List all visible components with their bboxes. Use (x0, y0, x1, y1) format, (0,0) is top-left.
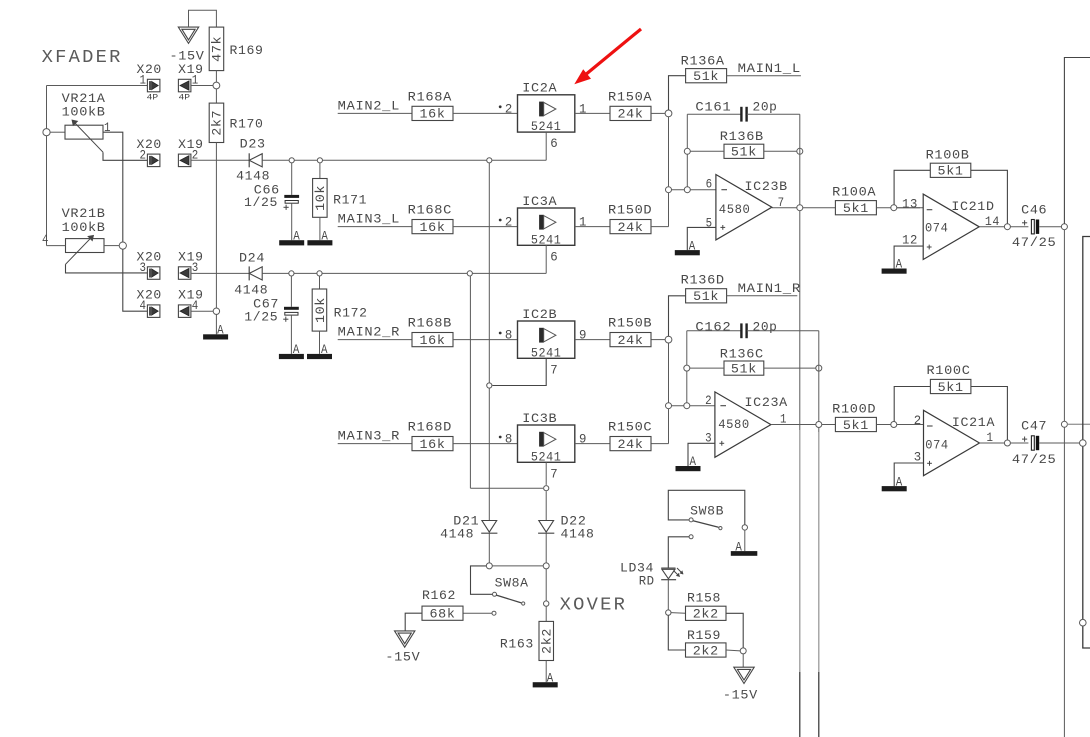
wire R150A to junction (651, 112, 665, 114)
svg-text:R136A: R136A (681, 54, 725, 68)
node junction C66 (289, 158, 294, 163)
svg-text:MAIN3_R: MAIN3_R (338, 430, 400, 444)
svg-text:MAIN2_R: MAIN2_R (338, 326, 400, 340)
svg-text:A: A (293, 343, 300, 357)
wire D22 node to R163 (545, 569, 547, 601)
wire (453, 443, 518, 445)
svg-text:12: 12 (902, 234, 918, 248)
wire MAIN1_L (727, 75, 801, 77)
svg-text:5k1: 5k1 (938, 381, 964, 395)
svg-text:074: 074 (925, 438, 948, 452)
svg-text:A: A (896, 475, 903, 489)
svg-text:VR21B: VR21B (62, 207, 106, 221)
wire net MAIN3_L (338, 226, 412, 228)
wire bus vertical A upper (799, 211, 801, 430)
power -15V arrow R162 (395, 631, 415, 647)
wire (290, 315, 292, 354)
wire (575, 443, 610, 445)
wire riser R136C right (818, 331, 820, 422)
wire (104, 245, 119, 247)
wire IC2B pin7 (493, 358, 547, 385)
op-amp IC23B 4580 (716, 175, 772, 240)
svg-text:MAIN1_R: MAIN1_R (738, 282, 801, 296)
wire R170 top (215, 89, 217, 103)
svg-text:51k: 51k (693, 70, 719, 84)
svg-text:2: 2 (140, 148, 147, 162)
wiper arrow VR21B (66, 237, 93, 264)
annotation red arrow pointing at IC2A (585, 29, 642, 76)
wire riser R136B right (799, 114, 801, 204)
svg-text:2k2: 2k2 (693, 644, 719, 658)
svg-text:R168D: R168D (408, 421, 452, 435)
svg-text:4: 4 (140, 299, 147, 313)
node junction feedback R (684, 403, 690, 409)
wire (319, 331, 321, 354)
svg-text:9: 9 (579, 329, 587, 343)
wire plus input to ground IC21D (894, 246, 923, 268)
node junction IC23A input node (665, 336, 672, 343)
svg-text:5k1: 5k1 (938, 165, 964, 179)
svg-text:R136C: R136C (720, 347, 764, 361)
node junction minus R (666, 403, 672, 409)
resistor R169 (209, 27, 224, 71)
wire gate R vertical (469, 276, 471, 488)
svg-text:-15V: -15V (385, 651, 420, 665)
wire bus vertical A lower dark (799, 672, 801, 737)
resistor R163 2k2 (539, 621, 554, 660)
ground A C67 (279, 354, 304, 359)
svg-text:47/25: 47/25 (1012, 453, 1057, 467)
node junction IC23B input node (665, 110, 672, 117)
wire feedback right IC21D (971, 170, 1008, 223)
wire IC3B pin7 (545, 462, 547, 485)
node junction output IC21A (1004, 440, 1010, 446)
wire down to minus node R (668, 343, 670, 403)
svg-text:R100D: R100D (832, 403, 876, 417)
wire X19-2 to D23 (191, 159, 249, 161)
wire to SW8A throw (471, 566, 493, 594)
wire (50, 131, 65, 133)
node junction output R (816, 422, 822, 428)
svg-text:R150B: R150B (608, 317, 652, 331)
svg-text:47k: 47k (211, 36, 225, 62)
svg-text:D23: D23 (240, 138, 266, 152)
ground A SW8B (731, 551, 758, 556)
wire R163 to ground (545, 661, 547, 683)
svg-text:IC3A: IC3A (522, 195, 557, 209)
ground A IC21A (882, 486, 907, 491)
svg-text:C46: C46 (1021, 204, 1047, 218)
node junction feedback L (684, 187, 690, 193)
wire (876, 207, 920, 209)
svg-text:16k: 16k (420, 438, 446, 452)
svg-text:7: 7 (550, 363, 558, 377)
node junction R158 R159 right (740, 648, 746, 654)
wire D24 to IC3A pin6 (262, 272, 546, 274)
svg-text:IC3B: IC3B (522, 412, 557, 426)
svg-text:68k: 68k (430, 608, 456, 622)
svg-text:A: A (293, 229, 300, 243)
svg-text:10k: 10k (314, 185, 328, 211)
buffer op-amp IC3B 5241 (518, 425, 575, 462)
node junction IC3B pin7 gate R (544, 486, 549, 491)
wire feedback riser L (686, 114, 688, 186)
wire junction down to R159 (668, 615, 685, 650)
svg-text:R100C: R100C (927, 364, 971, 378)
svg-text:IC2B: IC2B (522, 308, 557, 322)
op-amp IC21D 074 (923, 194, 979, 259)
wire output IC23B (772, 207, 836, 209)
svg-text:C161: C161 (695, 101, 731, 115)
wire VR21A terminal1 down (103, 132, 123, 242)
wire plus input to ground (687, 227, 716, 250)
wire top to X20-1 (47, 85, 148, 87)
wire to -15V (742, 654, 744, 667)
svg-text:6: 6 (706, 178, 713, 192)
node junction R136B left (684, 148, 690, 154)
svg-text:RD: RD (639, 574, 655, 588)
wire bus vertical B lower dark (818, 672, 820, 737)
wire R170 bottom to ground (215, 143, 217, 308)
wire minus node to opamp (672, 189, 716, 191)
wire C46 to bus (1039, 226, 1061, 228)
contact SW8A lower throw (492, 611, 496, 615)
node junction X19-1 bias (213, 82, 220, 89)
wire R150B to junction (651, 339, 665, 341)
svg-text:4580: 4580 (719, 203, 751, 217)
svg-text:51k: 51k (731, 146, 757, 160)
wire bus vertical B upper (818, 428, 820, 433)
svg-text:8: 8 (505, 329, 513, 343)
ground A R172 (307, 354, 332, 359)
wire minus node to opamp R (672, 405, 715, 407)
svg-text:1: 1 (140, 74, 147, 88)
svg-text:47/25: 47/25 (1012, 236, 1057, 250)
wire output IC21D (979, 226, 1028, 228)
svg-text:3: 3 (140, 261, 147, 275)
svg-text:R150A: R150A (608, 90, 652, 104)
buffer op-amp IC3A 5241 (518, 208, 575, 245)
svg-text:R168C: R168C (408, 204, 452, 218)
svg-text:51k: 51k (693, 290, 719, 304)
node junction D21 bottom (486, 563, 492, 569)
node junction C67 (289, 271, 294, 276)
wire plus input to ground R (688, 443, 715, 466)
node junction SW8A pole (544, 601, 549, 606)
node VR21A left terminal (43, 129, 50, 136)
node junction bus stub (1061, 421, 1067, 427)
wire R162 to throw (463, 612, 492, 614)
potentiometer VR21A 100kB (65, 125, 103, 139)
svg-text:C47: C47 (1021, 420, 1047, 434)
buffer op-amp IC2A 5241 (518, 95, 575, 132)
capacitor C67 1/25 (290, 276, 292, 307)
svg-text:16k: 16k (420, 334, 446, 348)
node VR21B right terminal (119, 242, 126, 249)
svg-text:R168B: R168B (408, 317, 452, 331)
svg-text:2k7: 2k7 (211, 110, 225, 136)
wire (545, 533, 547, 562)
resistor R170 (209, 103, 224, 142)
svg-text:10k: 10k (314, 297, 328, 323)
node junction minus L (666, 187, 672, 193)
wire feedback riser R (686, 331, 688, 403)
wire C47 to box terminal (1039, 442, 1080, 444)
ground A C66 (279, 240, 304, 245)
wire X19-4 to ground node (191, 310, 213, 312)
svg-text:MAIN2_L: MAIN2_L (338, 99, 400, 113)
wire gray stub (1067, 423, 1090, 425)
svg-text:1: 1 (104, 121, 111, 135)
ground A R171 (307, 240, 332, 245)
svg-text:R169: R169 (230, 44, 264, 58)
wire feedback left IC21A (894, 387, 930, 422)
svg-text:24k: 24k (618, 108, 644, 122)
svg-text:20p: 20p (753, 321, 778, 335)
op-amp IC23A 4580 (715, 392, 771, 457)
svg-text:A: A (321, 343, 328, 357)
wire bus vertical A gray (799, 430, 801, 672)
svg-text:24k: 24k (618, 334, 644, 348)
svg-text:XFADER: XFADER (42, 47, 123, 68)
wire (215, 314, 217, 334)
svg-text:9: 9 (579, 433, 587, 447)
svg-text:SW8A: SW8A (495, 577, 529, 591)
svg-text:A: A (896, 258, 903, 272)
svg-text:XOVER: XOVER (560, 594, 628, 615)
node junction gate line R (467, 271, 472, 276)
svg-text:13: 13 (902, 197, 918, 211)
svg-text:2: 2 (505, 216, 513, 230)
svg-text:R172: R172 (334, 307, 368, 321)
svg-text:2: 2 (705, 394, 712, 408)
svg-text:IC23B: IC23B (745, 180, 788, 194)
wire junction to D22 (545, 491, 547, 520)
ground A R163 (533, 682, 558, 687)
wire down to minus node (668, 117, 670, 187)
svg-text:5k1: 5k1 (843, 202, 869, 216)
wire (189, 10, 217, 27)
svg-text:51k: 51k (731, 362, 757, 376)
wiper arrow VR21A (74, 122, 104, 153)
wire bus vertical B gray (818, 432, 820, 672)
svg-text:R100B: R100B (926, 149, 970, 163)
svg-text:IC23A: IC23A (745, 396, 788, 410)
wire (668, 193, 670, 227)
wire (319, 217, 321, 240)
svg-text:R158: R158 (687, 592, 721, 606)
wire (575, 226, 610, 228)
svg-text:4148: 4148 (234, 284, 268, 298)
svg-text:R159: R159 (687, 629, 721, 643)
wire R150C corner (651, 443, 668, 445)
wire MAIN1_R (727, 295, 798, 297)
svg-text:1/25: 1/25 (244, 311, 278, 325)
svg-text:100kB: 100kB (62, 106, 106, 120)
wire right bus middle (1063, 230, 1065, 422)
wire input to IC21D (897, 207, 923, 209)
ground A IC23A (676, 466, 701, 471)
svg-text:20p: 20p (753, 101, 778, 115)
wire (690, 150, 724, 152)
resistor R172 10k (319, 276, 321, 289)
svg-text:4P: 4P (179, 93, 191, 102)
wire (764, 150, 797, 152)
svg-text:5241: 5241 (531, 120, 562, 134)
wire (291, 203, 293, 240)
svg-text:16k: 16k (420, 108, 446, 122)
wire (575, 112, 610, 114)
svg-text:-15V: -15V (723, 688, 758, 702)
wire gate L vertical lower (488, 388, 490, 520)
ground A IC23B (675, 250, 700, 255)
svg-text:IC2A: IC2A (522, 82, 557, 96)
svg-text:R168A: R168A (408, 90, 452, 104)
power -15V arrow R159 (734, 667, 754, 683)
node junction D22 bottom (543, 563, 549, 569)
svg-text:A: A (547, 671, 554, 685)
wire D23 to IC2A pin6 (262, 159, 546, 161)
svg-text:5241: 5241 (531, 233, 562, 247)
node junction IC2B pin7 gate L (487, 383, 492, 388)
wire (690, 367, 724, 369)
ground A IC21D (882, 269, 907, 274)
wire right bus lower (1063, 427, 1065, 737)
node junction R172 (317, 271, 322, 276)
svg-text:R150D: R150D (608, 204, 652, 218)
node junction R171 (317, 158, 322, 163)
svg-text:8: 8 (505, 433, 513, 447)
svg-text:2: 2 (914, 414, 922, 428)
wire output IC23A (771, 424, 836, 426)
capacitor C66 1/25 (291, 163, 293, 195)
wire feedback left IC21D (894, 170, 930, 204)
wire (726, 649, 740, 652)
wire (488, 533, 490, 562)
buffer op-amp IC2B 5241 (518, 321, 575, 358)
svg-text:4P: 4P (147, 93, 159, 102)
wire (668, 409, 670, 444)
wire input to IC21A (897, 424, 924, 426)
wire net MAIN2_L (338, 112, 412, 114)
svg-text:A: A (321, 229, 328, 243)
ground A (203, 334, 228, 339)
svg-text:MAIN1_L: MAIN1_L (738, 62, 801, 76)
wire vertical to R136D (669, 296, 686, 336)
svg-text:R171: R171 (333, 194, 367, 208)
wire X19-1 to node (191, 85, 213, 87)
svg-text:R136B: R136B (720, 130, 764, 144)
wire to R158 (671, 612, 686, 615)
node junction R136C left (684, 365, 690, 371)
wire net MAIN2_R (338, 339, 412, 341)
node junction R136C right (816, 365, 822, 371)
wire IC3A pin6 (545, 245, 547, 273)
svg-text:1: 1 (579, 216, 587, 230)
svg-text:R170: R170 (230, 118, 264, 132)
svg-text:R163: R163 (500, 638, 534, 652)
svg-text:6: 6 (550, 137, 558, 151)
wire LED cathode down (667, 580, 669, 610)
potentiometer VR21B 100kB (66, 239, 105, 253)
wire (453, 226, 518, 228)
node junction IC21D input (891, 205, 897, 211)
svg-text:2k2: 2k2 (693, 608, 719, 622)
node junction SW8B pole (742, 525, 747, 530)
svg-text:R150C: R150C (608, 421, 652, 435)
wire gate L vertical (488, 163, 490, 383)
svg-text:5k1: 5k1 (843, 419, 869, 433)
node junction R136B right (797, 148, 803, 154)
svg-text:C67: C67 (253, 298, 279, 312)
svg-text:R136D: R136D (681, 273, 725, 287)
wire (575, 339, 610, 341)
svg-text:IC21A: IC21A (952, 416, 995, 430)
power -15V supply arrow top (178, 27, 198, 43)
svg-text:2k2: 2k2 (541, 628, 555, 654)
wire (215, 71, 217, 83)
wire pole to ground (744, 530, 746, 551)
wire R150D corner (651, 226, 669, 228)
wire (876, 424, 920, 426)
node junction LED R158 R159 (666, 610, 671, 615)
node junction output L (797, 205, 803, 211)
wire (453, 339, 518, 341)
svg-text:A: A (217, 324, 224, 338)
svg-text:4148: 4148 (440, 527, 474, 541)
svg-text:24k: 24k (618, 221, 644, 235)
wire (764, 367, 816, 369)
wire wiper to X20-3 (66, 264, 148, 273)
svg-text:SW8B: SW8B (690, 504, 724, 518)
svg-text:074: 074 (925, 222, 948, 236)
node junction gate line L (487, 158, 492, 163)
svg-text:VR21A: VR21A (62, 92, 106, 106)
svg-text:R100A: R100A (832, 186, 876, 200)
contact SW8B lower throw (689, 535, 693, 539)
svg-text:24k: 24k (618, 438, 644, 452)
wire feedback right IC21A (971, 387, 1008, 441)
wire SW8B loop (668, 490, 745, 524)
wire (453, 112, 518, 114)
wire X19-3 to D24 (191, 272, 249, 274)
svg-text:1/25: 1/25 (244, 196, 278, 210)
svg-text:16k: 16k (420, 221, 446, 235)
svg-text:4580: 4580 (718, 418, 750, 432)
node junction bus C46 (1061, 224, 1067, 230)
wire net MAIN3_R (338, 443, 412, 445)
node terminal box lower (1080, 619, 1087, 626)
wire gate R horizontal (470, 487, 543, 489)
node junction X19-4 ground (213, 308, 219, 314)
svg-text:6: 6 (550, 250, 558, 264)
node junction IC21A input (891, 422, 897, 428)
wire R162 left to -15V (405, 613, 422, 631)
wire output IC21A (980, 442, 1029, 444)
svg-text:A: A (690, 455, 697, 469)
wire D21-D22 link (492, 565, 543, 567)
svg-text:2: 2 (505, 102, 513, 116)
wire right bus corner (1064, 58, 1090, 224)
resistor R171 10k (319, 163, 321, 179)
svg-text:IC21D: IC21D (951, 200, 994, 214)
wire (47, 245, 66, 247)
svg-text:C162: C162 (695, 321, 731, 335)
svg-text:R162: R162 (422, 589, 456, 603)
wire vertical to R136A (669, 76, 686, 110)
svg-text:A: A (735, 540, 742, 554)
svg-text:5: 5 (706, 217, 713, 231)
